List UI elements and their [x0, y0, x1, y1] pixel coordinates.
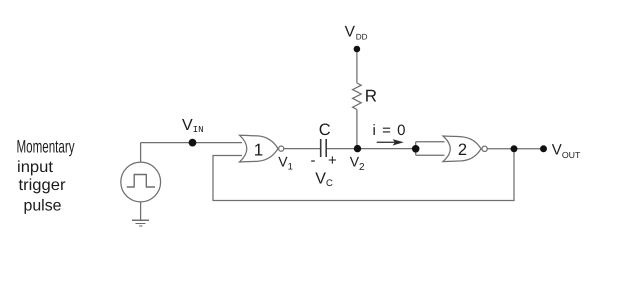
svg-text:+: +: [328, 152, 337, 169]
wire source vertical: [140, 143, 142, 162]
output feedback junction dot: [511, 145, 518, 152]
svg-text:trigger: trigger: [19, 177, 67, 194]
svg-text:pulse: pulse: [24, 197, 62, 214]
capacitor C plates: [321, 139, 327, 157]
node VOUT terminal dot: [540, 145, 547, 152]
svg-text:VDD: VDD: [345, 24, 368, 42]
wire gate1 output to capacitor: [284, 148, 321, 150]
gate1 bubble: [279, 146, 284, 151]
svg-text:i = 0: i = 0: [373, 122, 406, 139]
svg-text:R: R: [365, 86, 377, 105]
pulse source (momentary trigger) circle: [121, 162, 161, 202]
node V2 junction dot: [354, 145, 361, 152]
svg-text:-: -: [311, 152, 316, 169]
VDD supply terminal dot: [354, 46, 361, 53]
svg-text:1: 1: [254, 140, 263, 159]
handwritten annotation: [17, 136, 75, 214]
svg-text:V2: V2: [350, 154, 365, 173]
NOR gate 2 body: [443, 136, 481, 162]
feedback wire: [213, 149, 514, 201]
ground wire: [140, 201, 142, 220]
svg-text:VOUT: VOUT: [552, 141, 581, 159]
svg-text:VC: VC: [315, 171, 333, 190]
wire gate2 output to VOUT: [488, 148, 544, 150]
gate2 input junction dot: [412, 145, 420, 153]
svg-text:2: 2: [458, 141, 467, 159]
svg-text:V1: V1: [278, 154, 293, 173]
ground symbol: [132, 220, 149, 226]
svg-text:C: C: [319, 121, 331, 139]
svg-text:VIN: VIN: [182, 117, 204, 135]
NOR gate 1 body: [240, 135, 279, 162]
wire VDD to resistor to node V2: [356, 49, 358, 83]
wire capacitor to V2 to gate2 input dot: [326, 148, 416, 150]
wire V_IN horizontal from source to gate 1 top input: [141, 142, 242, 144]
current arrow i=0: [377, 141, 397, 143]
svg-text:Momentary: Momentary: [17, 136, 75, 156]
node VIN junction dot: [189, 139, 197, 147]
gate2 input fork: [416, 142, 445, 156]
resistor R zigzag: [353, 83, 362, 110]
pulse symbol: [127, 175, 155, 188]
gate2 bubble: [482, 146, 487, 151]
svg-text:input: input: [17, 159, 54, 176]
